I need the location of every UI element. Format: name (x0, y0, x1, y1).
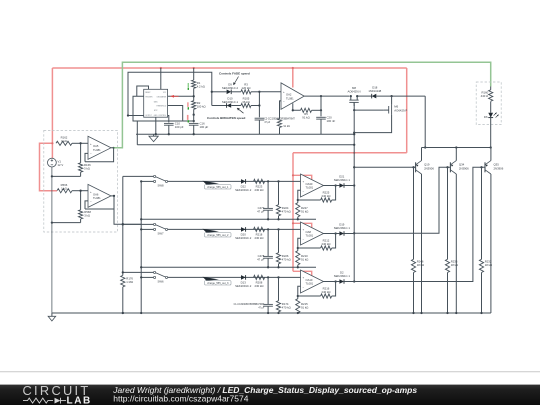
svg-text:SEK2091C.1: SEK2091C.1 (222, 100, 239, 104)
resistor R210 (298, 238, 301, 250)
svg-text:−: − (303, 285, 305, 289)
svg-text:SEK2091C.2: SEK2091C.2 (235, 236, 252, 240)
wire Q35 emitter (490, 174, 492, 313)
transistor Q35 (484, 162, 486, 172)
wire bus OA6out vertical (122, 176, 124, 275)
svg-text:1N914148: 1N914148 (368, 89, 381, 93)
svg-text:TL081: TL081 (306, 234, 314, 238)
svg-text:2N3906: 2N3906 (494, 166, 504, 170)
switch SW8 (154, 175, 156, 177)
wire row1 bottom rail (141, 218, 316, 220)
capacitor C16 (193, 115, 195, 123)
net flag charge_555_out_1 (203, 181, 220, 185)
op-amp OA5 (88, 136, 111, 159)
svg-text:OA10: OA10 (306, 278, 313, 282)
wire common bus (353, 102, 355, 281)
resistor R227 (298, 190, 301, 202)
svg-text:91 kΩ: 91 kΩ (301, 209, 308, 213)
op-amp OA30 (301, 174, 324, 197)
wire R3 out (251, 91, 259, 93)
diode D13 (241, 275, 246, 280)
resistor R566 (57, 189, 72, 193)
svg-text:240 kΩ: 240 kΩ (322, 242, 331, 246)
svg-text:+: + (90, 142, 92, 146)
wire OA8 feedback (332, 234, 336, 249)
wire M8 region (357, 95, 372, 97)
wire M6 gate (354, 109, 384, 111)
wire OA6 output (114, 196, 141, 224)
svg-text:18 kΩ: 18 kΩ (417, 263, 424, 267)
svg-text:470 kΩ: 470 kΩ (282, 209, 291, 213)
svg-text:+: + (303, 276, 305, 280)
svg-text:SW7: SW7 (157, 232, 164, 236)
svg-text:3 kΩ: 3 kΩ (84, 214, 90, 218)
resistor R215 (298, 286, 301, 298)
svg-text:TRIGGER: TRIGGER (145, 96, 153, 98)
diode D18 (372, 94, 377, 99)
wire bottom rail (52, 312, 491, 314)
svg-text:TL081: TL081 (306, 282, 314, 286)
resistor R225 (321, 198, 332, 202)
wire R568 to V1 minus (52, 222, 81, 224)
indicator R2 (187, 102, 188, 107)
resistor R212 (321, 246, 332, 250)
wire D18 to rail drop (376, 95, 425, 97)
svg-text:−: − (90, 151, 92, 155)
svg-text:100 pF: 100 pF (175, 125, 184, 129)
resistor R246 (413, 167, 415, 259)
svg-text:CONTROL: CONTROL (158, 115, 166, 117)
svg-text:−: − (283, 100, 285, 104)
op-amp OA2 (281, 83, 304, 110)
voltage source V1 (48, 158, 57, 167)
svg-text:TL081: TL081 (93, 196, 101, 200)
svg-text:OA2: OA2 (286, 93, 292, 97)
diode D19 (339, 231, 344, 236)
wire R105 out (251, 105, 259, 107)
svg-text:47 µF: 47 µF (257, 209, 264, 213)
svg-text:470 kΩ: 470 kΩ (282, 257, 291, 261)
wire row3 main (168, 276, 301, 278)
svg-text:+: + (90, 190, 92, 194)
svg-text:+: + (303, 180, 305, 184)
diode D20 (241, 227, 246, 232)
svg-text:SEK2091C.2: SEK2091C.2 (222, 86, 239, 90)
svg-text:SEK2091C.2: SEK2091C.2 (235, 188, 252, 192)
svg-text:SEK2091C.1: SEK2091C.1 (334, 178, 351, 182)
wire red loop to R566 (40, 143, 58, 190)
wire Q19 collector (421, 148, 423, 161)
indicator C16 (187, 115, 189, 120)
resistor R174 (278, 277, 280, 300)
wire Q19 emitter (421, 174, 423, 313)
svg-text:SW8: SW8 (157, 184, 164, 188)
svg-text:120 kΩ: 120 kΩ (242, 86, 251, 90)
footer bar (0, 385, 540, 405)
resistor R2 (192, 101, 196, 110)
wire 555 output pin stub (128, 115, 144, 117)
wire 555 output loop top (128, 72, 212, 115)
wire red mid rail (293, 152, 407, 154)
svg-text:C1-CC329080X5R5BB476MT: C1-CC329080X5R5BB476MT (234, 304, 265, 306)
capacitor C478 (267, 229, 269, 256)
capacitor C10 (168, 116, 169, 123)
svg-text:SW6: SW6 (157, 280, 164, 284)
wire OA5 minus input (85, 153, 88, 161)
resistor R162 (56, 141, 72, 145)
wire bus gnd vertical (140, 181, 142, 313)
svg-text:OA5: OA5 (93, 144, 99, 148)
indicator R1 (188, 83, 189, 87)
wire D9 row (212, 91, 227, 93)
resistor R176 (121, 275, 125, 287)
svg-text:47 µF: 47 µF (264, 122, 271, 124)
svg-text:91 kΩ: 91 kΩ (284, 125, 291, 128)
wire red V1 plus lead (51, 143, 53, 158)
annotation arrow brighten (237, 108, 244, 113)
op-amp OA8 (301, 222, 324, 245)
svg-text:SEK2091C.1: SEK2091C.1 (334, 226, 351, 230)
svg-text:Controls BRIGHTEN speed: Controls BRIGHTEN speed (207, 116, 246, 120)
annotation red arrow discharge (170, 95, 174, 98)
resistor R224 (278, 181, 280, 204)
svg-text:91 kΩ: 91 kΩ (302, 116, 309, 120)
wire row1 lower contact (141, 180, 153, 182)
wire row2 main (168, 228, 301, 230)
separator line (0, 371, 540, 373)
diode D10 (227, 103, 232, 108)
wire threshold (168, 106, 183, 122)
svg-text:100 µF: 100 µF (200, 125, 209, 129)
svg-text:SEK2091C.1: SEK2091C.1 (334, 274, 351, 278)
transistor M6 (391, 96, 393, 105)
wire LED cathode (490, 118, 492, 148)
wire row2 lower contact (141, 228, 153, 230)
transistor M8 (350, 96, 352, 100)
svg-text:230 kΩ: 230 kΩ (255, 236, 264, 240)
wire red OA2 supply stub (292, 68, 294, 88)
svg-text:18 kΩ: 18 kΩ (485, 263, 492, 267)
op-amp OA6 (88, 184, 111, 207)
wire Q35 collector (490, 148, 492, 161)
switch SW7 (154, 223, 156, 225)
svg-text:47 µF: 47 µF (257, 257, 264, 261)
svg-text:TL081: TL081 (93, 148, 101, 152)
wire D10 to R105 (231, 105, 241, 107)
svg-text:440 Ω: 440 Ω (481, 94, 489, 98)
wire red OA row1 supply stub (293, 175, 312, 180)
wire row2 bottom rail (141, 266, 316, 268)
wire OA30 output (324, 185, 340, 187)
svg-text:240 kΩ: 240 kΩ (322, 290, 331, 294)
svg-text:1 kΩ: 1 kΩ (61, 139, 67, 143)
annotation arrow fade (234, 77, 239, 86)
resistor R568 (80, 191, 82, 210)
svg-text:AO6429.P: AO6429.P (394, 108, 407, 112)
resistor R232 (481, 167, 483, 259)
wire D2 to bus (344, 281, 354, 283)
svg-text:SEK2091C.2: SEK2091C.2 (235, 284, 252, 288)
wire red V+ left drop (51, 68, 53, 143)
svg-text:−: − (90, 200, 92, 204)
svg-text:D6: D6 (484, 115, 488, 119)
wire OA6 minus input (85, 201, 88, 209)
svg-text:OA6: OA6 (93, 192, 99, 196)
wire D21 to bus (344, 185, 354, 187)
wire D10 row (212, 105, 227, 107)
wire 555 vcc stub (160, 68, 162, 89)
wire OA10 output (324, 281, 340, 283)
wire Q34 collector (455, 148, 457, 161)
wire red OA row2 supply stub (293, 223, 312, 228)
svg-text:+: + (283, 90, 285, 94)
wire OA8 output (324, 233, 340, 235)
svg-text:91 kΩ: 91 kΩ (301, 305, 308, 309)
resistor R5 (293, 103, 301, 110)
wire M6 source loop (354, 115, 391, 133)
resistor R3 (241, 90, 251, 94)
svg-text:charge_555_out_2: charge_555_out_2 (207, 233, 229, 237)
svg-text:OA30: OA30 (306, 182, 313, 186)
wire base rail Q19 (354, 166, 415, 168)
wire 555 out rail (137, 144, 354, 146)
svg-text:−: − (303, 237, 305, 241)
svg-text:AO6429.N: AO6429.N (347, 90, 360, 94)
svg-text:+: + (303, 228, 305, 232)
wire row1 main (168, 180, 301, 182)
capacitor C20 (320, 96, 322, 116)
resistor R208 (254, 275, 265, 279)
resistor R166 (80, 143, 82, 163)
wire collector rail drop (424, 96, 426, 147)
resistor R236 (447, 167, 449, 259)
svg-text:−: − (303, 189, 305, 193)
svg-text:91 kΩ: 91 kΩ (301, 257, 308, 261)
switch SW6 (154, 271, 156, 273)
wire red OA row3 supply stub (293, 271, 312, 276)
wire row3 upper contact (123, 271, 154, 273)
diode D21 (339, 183, 344, 188)
svg-text:RESET: RESET (145, 92, 150, 94)
wire V1 minus (51, 167, 53, 176)
capacitor C1 (267, 277, 269, 304)
svg-text:TL081: TL081 (306, 186, 314, 190)
resistor R160 (490, 87, 492, 90)
wire Q34 emitter (455, 174, 457, 313)
diode D22 (241, 179, 246, 184)
wire 555 reset loop (137, 86, 149, 96)
svg-text:http://circuitlab.com/cszapw4a: http://circuitlab.com/cszapw4ar7574 (113, 393, 248, 403)
wire row3 to Q35 (354, 167, 485, 281)
svg-text:47 µF: 47 µF (258, 307, 265, 309)
ground main (51, 313, 53, 316)
transistor Q19 (415, 162, 417, 172)
net flag charge_555_out_2 (203, 229, 220, 233)
wire OA5 feedback (85, 148, 114, 162)
wire row1 upper contact (123, 175, 154, 177)
wire V1 minus down (51, 176, 53, 313)
svg-text:charge_555_out_3: charge_555_out_3 (207, 281, 229, 285)
capacitor C479 (267, 181, 269, 208)
wire D19 to bus (344, 233, 354, 235)
resistor R223 (254, 179, 265, 183)
transistor Q34 (449, 162, 451, 172)
svg-text:470 kΩ: 470 kΩ (282, 305, 291, 309)
LED D6 (488, 113, 493, 118)
wire OA10 feedback (332, 282, 336, 297)
wire row2 upper contact (123, 223, 154, 225)
resistor R226 (278, 229, 280, 252)
wire R166 to V1 minus (52, 175, 81, 177)
op-amp OA10 (301, 270, 324, 293)
IC 555 timer IC2 (144, 89, 168, 117)
svg-text:2N3906: 2N3906 (424, 166, 434, 170)
ground 555 section (153, 134, 155, 136)
wire row3 lower contact (141, 276, 153, 278)
wire red V+ top rail (52, 67, 406, 69)
svg-text:OUTPUT: OUTPUT (145, 115, 152, 117)
svg-text:100 nF: 100 nF (327, 119, 336, 123)
resistor R1 (193, 68, 195, 80)
wire section ground rail (136, 133, 354, 135)
svg-text:4.2 kΩ: 4.2 kΩ (197, 84, 205, 88)
wire green OA5 output to LED supply (114, 62, 491, 148)
wire OA2 output (304, 95, 349, 97)
wire red right drop (406, 68, 408, 153)
wire collector rail (422, 147, 491, 149)
svg-text:230 kΩ: 230 kΩ (255, 188, 264, 192)
svg-text:100 kΩ: 100 kΩ (197, 104, 206, 108)
svg-text:240 kΩ: 240 kΩ (322, 194, 331, 198)
svg-text:1 kΩ: 1 kΩ (61, 186, 67, 190)
resistor R216 (321, 294, 332, 298)
wire D9 to R3 (231, 91, 241, 93)
svg-text:Controls FADE speed: Controls FADE speed (219, 72, 250, 76)
node red junctions (51, 142, 53, 144)
svg-text:charge_555_out_1: charge_555_out_1 (207, 185, 229, 189)
resistor R218 (254, 227, 265, 231)
wire OA2 plus input (259, 91, 281, 93)
wire row2 to Q34 (354, 167, 450, 233)
dashed box LED block (476, 82, 501, 125)
potentiometer R4 (280, 101, 282, 119)
wire red opamp column (292, 153, 294, 271)
diode D2 (339, 279, 344, 284)
dashed box source block (44, 130, 118, 232)
svg-text:THRESHOLD: THRESHOLD (156, 106, 167, 108)
wire OA6 feedback (85, 196, 114, 209)
wire 555 trigger loop (133, 96, 194, 121)
node green junction (113, 147, 115, 149)
wire OA30 feedback (332, 186, 336, 201)
diode D9 (227, 90, 232, 95)
wire discharge (168, 95, 194, 97)
svg-text:OA8: OA8 (306, 230, 312, 234)
svg-text:3 kΩ: 3 kΩ (84, 166, 90, 170)
capacitor C2 (258, 92, 260, 118)
wire 555 gnd pin (155, 117, 157, 134)
svg-text:36 kΩ: 36 kΩ (242, 100, 249, 104)
svg-text:230 kΩ: 230 kΩ (255, 284, 264, 288)
svg-text:2N3906: 2N3906 (459, 166, 469, 170)
svg-text:1 MΩ: 1 MΩ (126, 280, 133, 284)
svg-text:LAB: LAB (67, 396, 92, 405)
svg-text:18 kΩ: 18 kΩ (451, 263, 458, 267)
resistor R105 (241, 103, 251, 107)
svg-text:12 V: 12 V (58, 163, 64, 167)
net flag charge_555_out_3 (203, 277, 220, 281)
wire trigger loop tail (136, 121, 138, 145)
wire R160 to LED (490, 102, 492, 113)
svg-text:TL081: TL081 (286, 96, 294, 100)
